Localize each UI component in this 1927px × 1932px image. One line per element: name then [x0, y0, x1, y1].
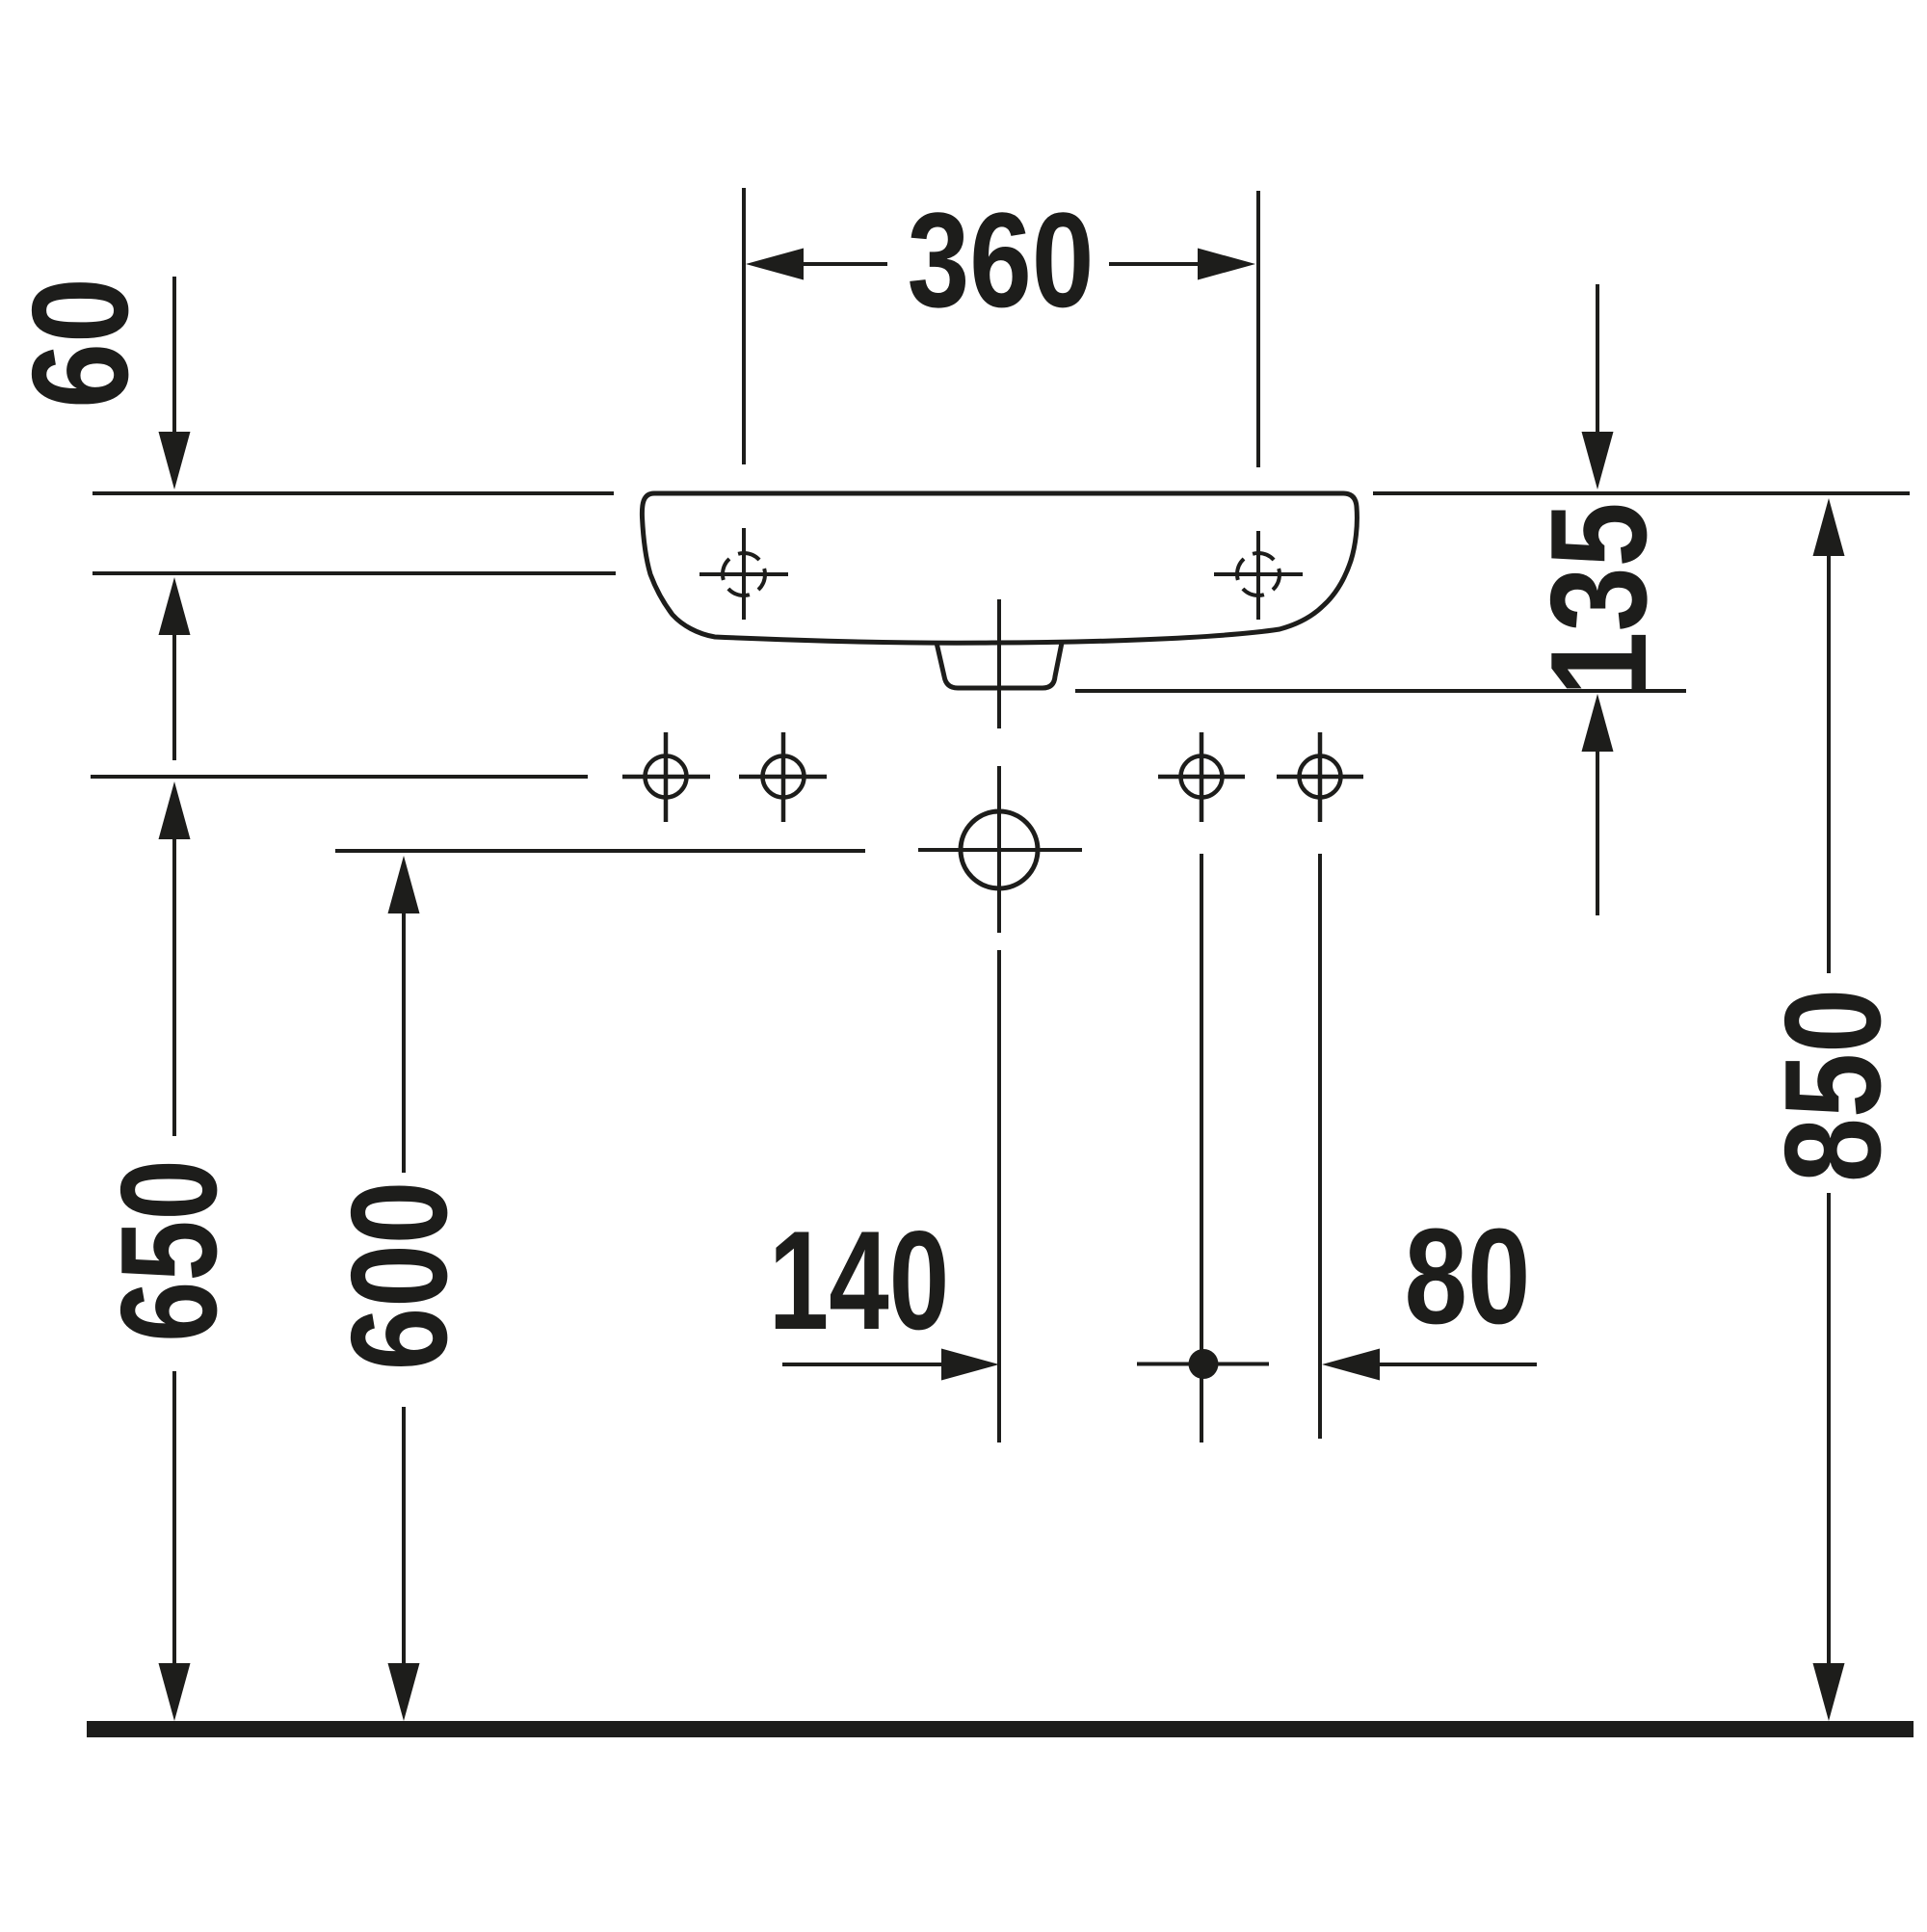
drain outlet — [937, 643, 1062, 688]
washbasin outline (front view) — [642, 493, 1357, 643]
svg-text:140: 140 — [769, 1202, 950, 1360]
dimension 360 extension line left — [742, 188, 746, 464]
dimension 360 extension line right — [1256, 191, 1260, 467]
dimension 80 label — [1405, 1200, 1531, 1352]
tap hole front (large circle) — [918, 766, 1082, 933]
svg-text:135: 135 — [1522, 502, 1675, 696]
centerline through drain — [997, 599, 1001, 1442]
wall mounting hole 1 — [622, 732, 710, 822]
dimension 60 label — [4, 278, 157, 409]
dimension 80 line with arrow — [1322, 1349, 1537, 1381]
reference line top left (wall top edge level) — [92, 491, 614, 495]
vertical line hole3 to dot — [1200, 854, 1203, 1442]
svg-text:850: 850 — [1756, 989, 1909, 1182]
dimension 135 label — [1522, 502, 1675, 696]
reference line tap-hole level left — [92, 571, 616, 575]
dimension 650 line with arrows — [159, 781, 191, 1721]
dimension 850 line with arrows — [1813, 498, 1845, 1721]
dimension 650 label — [93, 1159, 246, 1342]
dimension 360 line with arrows — [746, 249, 1255, 280]
dimension 140 line with arrow — [782, 1349, 999, 1381]
svg-text:650: 650 — [93, 1159, 246, 1342]
dimension 135 line with arrows — [1582, 284, 1614, 915]
tap hole left (dashed circle) — [700, 528, 788, 620]
wall mounting hole 2 — [739, 732, 827, 822]
reference line drain bottom right — [1075, 689, 1686, 693]
ground line — [87, 1721, 1914, 1737]
dimension 140 label — [769, 1202, 950, 1360]
vertical line hole4 — [1318, 854, 1322, 1439]
svg-text:60: 60 — [4, 278, 157, 409]
dimension 600 line with arrows — [388, 856, 420, 1721]
wall mounting hole 3 — [1158, 732, 1245, 822]
reference line 600 level — [335, 849, 865, 853]
dimension 60 line with arrows — [159, 277, 191, 760]
dimension 850 label — [1756, 989, 1909, 1182]
dimension 80 measuring point dot — [1137, 1349, 1269, 1379]
svg-text:360: 360 — [908, 186, 1095, 336]
tap hole right (dashed circle) — [1214, 531, 1303, 620]
wall mounting hole 4 — [1277, 732, 1363, 822]
reference line mounting-hole level left — [91, 775, 588, 779]
dimension 360 label — [908, 186, 1095, 336]
svg-text:80: 80 — [1405, 1200, 1531, 1352]
svg-text:600: 600 — [323, 1181, 476, 1371]
reference line top right — [1373, 491, 1910, 495]
dimension 600 label — [323, 1181, 476, 1371]
